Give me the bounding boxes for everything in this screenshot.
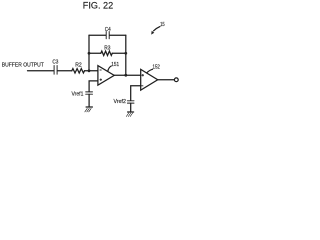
svg-text:R3: R3 <box>104 46 110 52</box>
svg-text:15: 15 <box>160 22 165 28</box>
svg-text:FIG. 22: FIG. 22 <box>83 0 113 11</box>
svg-text:BUFFER OUTPUT: BUFFER OUTPUT <box>2 62 45 68</box>
svg-text:Vref1: Vref1 <box>72 91 84 97</box>
svg-text:152: 152 <box>153 65 160 71</box>
svg-text:151: 151 <box>111 62 119 68</box>
svg-text:R2: R2 <box>75 63 82 69</box>
svg-text:C3: C3 <box>52 59 58 65</box>
svg-text:C4: C4 <box>105 27 111 33</box>
svg-text:Vref2: Vref2 <box>114 99 126 105</box>
